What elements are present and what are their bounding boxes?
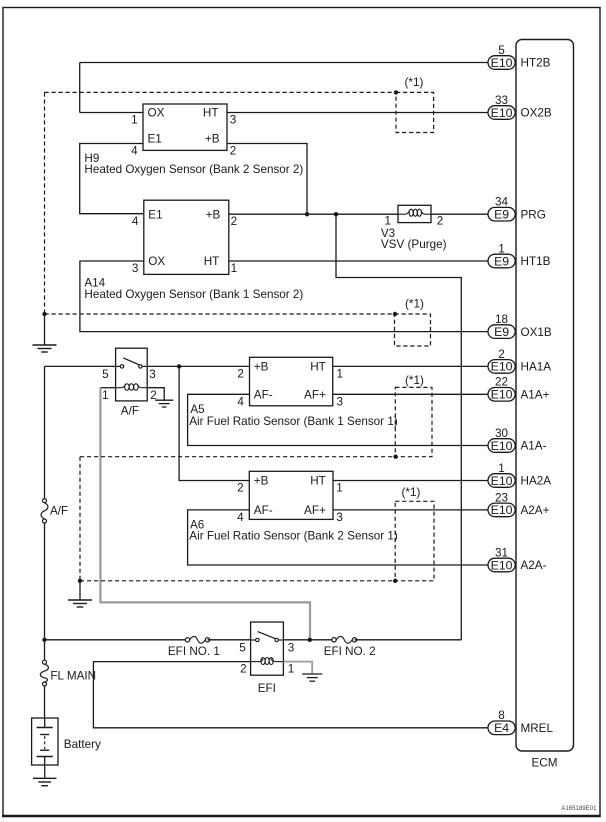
svg-text:EFI NO. 1: EFI NO. 1 (168, 645, 220, 658)
svg-text:HA2A: HA2A (521, 475, 552, 488)
svg-text:FL MAIN: FL MAIN (50, 669, 96, 682)
svg-text:E1: E1 (148, 133, 162, 146)
shield dashed box A1A (*1) (395, 387, 432, 456)
shield ground upper (44, 314, 46, 345)
svg-text:A2A+: A2A+ (521, 504, 550, 517)
wire A6 +B feed (179, 366, 249, 480)
svg-text:1: 1 (102, 389, 109, 402)
junction dot +B x307 (305, 212, 309, 216)
svg-text:E10: E10 (491, 106, 513, 120)
svg-text:E9: E9 (494, 254, 509, 268)
svg-text:Heated Oxygen Sensor (Bank 2 S: Heated Oxygen Sensor (Bank 2 Sensor 2) (84, 163, 303, 176)
svg-text:3: 3 (132, 262, 139, 275)
svg-text:1: 1 (498, 242, 505, 255)
svg-text:5: 5 (239, 641, 246, 654)
svg-text:A2A-: A2A- (521, 559, 547, 572)
svg-text:4: 4 (237, 396, 244, 409)
svg-text:4: 4 (237, 511, 244, 524)
heated oxygen sensor A14 box (144, 200, 229, 274)
svg-text:23: 23 (495, 491, 508, 504)
svg-text:HT2B: HT2B (521, 57, 551, 70)
svg-text:Air Fuel Ratio Sensor (Bank 2: Air Fuel Ratio Sensor (Bank 2 Sensor 1) (189, 529, 398, 542)
wire A5 AF- pin 4 to A1A- (188, 394, 488, 445)
junction dot shield left (42, 312, 46, 316)
fuse EFI NO. 2 (332, 638, 336, 642)
svg-text:5: 5 (102, 368, 109, 381)
svg-text:+B: +B (254, 475, 269, 488)
shield dashed box OX2B (*1) (396, 92, 434, 132)
wire fuse EFI NO.2 to riser (355, 639, 462, 641)
shield dashed line y581 (80, 580, 395, 582)
fusible link FL MAIN (43, 660, 47, 664)
svg-text:1: 1 (336, 482, 343, 495)
svg-text:AF+: AF+ (304, 389, 326, 402)
shield dashed vertical x44 (44, 92, 46, 314)
svg-text:MREL: MREL (521, 722, 554, 735)
svg-text:8: 8 (498, 709, 505, 722)
svg-text:OX1B: OX1B (521, 326, 552, 339)
A/F relay coil (125, 384, 130, 390)
air fuel ratio sensor A5 box (250, 357, 333, 406)
ground EFI relay (302, 673, 322, 675)
svg-text:(*1): (*1) (405, 76, 424, 89)
junction dot A/F output (177, 364, 181, 368)
wire A/F relay pin 3 to A5 +B (147, 365, 249, 367)
svg-text:2: 2 (237, 368, 244, 381)
wire VSV pin 2 to PRG (431, 213, 488, 215)
wire battery to ground (44, 765, 46, 778)
svg-text:ECM: ECM (532, 757, 558, 770)
wire battery feed to A/F relay pin 5 (45, 365, 116, 367)
wire vertical x79.7 (H9 OX to HT2B) (79, 63, 81, 113)
junction dot battery feed (42, 638, 46, 642)
svg-text:HT: HT (310, 475, 326, 488)
svg-text:AF+: AF+ (304, 504, 326, 517)
ECM pin 34 connector E9 (PRG) (488, 207, 515, 221)
wire A14 OX pin 3 to OX1B (80, 261, 488, 332)
svg-text:1: 1 (384, 215, 391, 228)
svg-text:HT1B: HT1B (521, 255, 551, 268)
svg-text:4: 4 (132, 215, 139, 228)
ECM pin 30 connector E10 (A1A-) (488, 439, 515, 453)
svg-text:2: 2 (240, 663, 247, 676)
svg-text:AF-: AF- (254, 389, 273, 402)
svg-text:+B: +B (206, 208, 221, 221)
svg-text:3: 3 (337, 396, 344, 409)
wire H9 E1 pin 4 (80, 144, 144, 214)
svg-text:4: 4 (131, 144, 138, 157)
ECM pin 1 connector E9 (HT1B) (488, 254, 515, 268)
ECM pin 31 connector E10 (A2A-) (488, 558, 515, 572)
svg-text:E10: E10 (491, 360, 513, 374)
svg-text:Battery: Battery (64, 738, 101, 751)
svg-text:5: 5 (498, 44, 505, 57)
A/F relay switch (116, 365, 121, 367)
wire H9 HT pin 3 to OX2B (227, 112, 488, 114)
svg-text:18: 18 (495, 313, 508, 326)
wire H9 +B pin 2 (227, 144, 307, 214)
junction dot shield lower left (78, 579, 82, 583)
svg-text:Heated Oxygen Sensor (Bank 1 S: Heated Oxygen Sensor (Bank 1 Sensor 2) (84, 288, 303, 301)
junction dot shield OX1B (393, 312, 397, 316)
A/F relay box (116, 348, 148, 401)
svg-text:A/F: A/F (50, 505, 68, 518)
svg-text:AF-: AF- (254, 504, 273, 517)
svg-text:(*1): (*1) (405, 298, 424, 311)
shield dashed box A2A (*1) (395, 501, 434, 581)
svg-text:+B: +B (205, 133, 220, 146)
svg-text:30: 30 (495, 427, 509, 440)
ECM pin 8 connector E4 (MREL) (488, 721, 515, 735)
junction dot +B x336 (334, 212, 338, 216)
wire EFI NO.1 feed (45, 639, 188, 641)
svg-text:EFI NO. 2: EFI NO. 2 (324, 645, 376, 658)
shield dashed line y92 (45, 91, 397, 93)
VSV V3 coil (409, 209, 413, 216)
svg-text:E1: E1 (148, 208, 162, 221)
ECM block (516, 40, 574, 752)
battery box (32, 718, 58, 765)
svg-text:2: 2 (498, 348, 505, 361)
battery plates (44, 718, 46, 728)
svg-text:E9: E9 (494, 208, 509, 222)
A/F relay output gray wire (100, 388, 310, 639)
shield dashed line y456 (80, 456, 395, 458)
svg-text:2: 2 (437, 215, 444, 228)
wire EFI NO.2 supply riser (336, 214, 461, 640)
junction dot gray wire (308, 638, 312, 642)
svg-text:3: 3 (230, 113, 237, 126)
svg-text:E10: E10 (491, 503, 513, 517)
shield dashed vertical x80 (79, 457, 81, 581)
svg-text:A1A-: A1A- (521, 440, 547, 453)
svg-text:3: 3 (336, 511, 343, 524)
ground battery (33, 777, 57, 779)
svg-text:22: 22 (495, 376, 508, 389)
junction dot shield OX2B (394, 90, 398, 94)
EFI relay coil (261, 658, 265, 665)
wire EFI relay pin 3 (283, 639, 334, 641)
svg-text:OX: OX (148, 255, 165, 268)
wire HT2B (80, 62, 488, 64)
svg-text:2: 2 (237, 482, 244, 495)
svg-text:2: 2 (230, 144, 237, 157)
svg-text:E10: E10 (491, 439, 513, 453)
wire A/F relay pin 1 stub (100, 387, 115, 389)
svg-text:VSV (Purge): VSV (Purge) (381, 238, 447, 251)
svg-text:34: 34 (495, 196, 509, 209)
wire EFI relay pin 1 to ground (283, 662, 312, 674)
svg-text:OX2B: OX2B (521, 107, 552, 120)
svg-text:33: 33 (495, 94, 508, 107)
svg-text:31: 31 (495, 546, 508, 559)
svg-text:HT: HT (310, 361, 326, 374)
wire A/F relay pin 2 to ground (147, 388, 164, 401)
wire A6 HT pin 1 to HA2A (333, 480, 488, 482)
svg-text:3: 3 (149, 368, 156, 381)
ECM pin 18 connector E9 (OX1B) (488, 325, 515, 339)
svg-text:A1A+: A1A+ (521, 389, 550, 402)
svg-text:(*1): (*1) (402, 486, 421, 499)
EFI relay switch (251, 639, 256, 641)
ECM pin 33 connector E10 (OX2B) (488, 106, 515, 120)
wire A/F fuse to EFI NO.1 node (44, 523, 46, 663)
svg-text:1: 1 (131, 113, 138, 126)
ground A/F relay (155, 399, 173, 401)
svg-text:1: 1 (498, 462, 505, 475)
ECM pin 23 connector E10 (A2A+) (488, 503, 515, 517)
svg-text:E10: E10 (491, 56, 513, 70)
junction dot shield A1A (393, 455, 397, 459)
shield ground lower (79, 581, 81, 600)
VSV V3 box (398, 205, 431, 222)
heated oxygen sensor H9 box (143, 104, 227, 150)
svg-text:E10: E10 (491, 474, 513, 488)
wire A5 AF+ pin 3 to A1A+ (333, 393, 488, 395)
svg-text:(*1): (*1) (405, 374, 424, 387)
svg-text:HA1A: HA1A (521, 361, 552, 374)
fuse EFI NO. 1 (185, 638, 189, 642)
svg-text:1: 1 (337, 368, 344, 381)
svg-text:+B: +B (254, 361, 269, 374)
ECM pin 1 connector E10 (HA2A) (488, 474, 515, 488)
svg-text:A/F: A/F (121, 405, 139, 418)
svg-text:2: 2 (231, 215, 238, 228)
svg-text:OX: OX (148, 107, 165, 120)
wire EFI relay pin 2 to MREL (93, 662, 488, 728)
wire fuse to EFI relay pin 5 (208, 639, 251, 641)
svg-text:PRG: PRG (521, 208, 546, 221)
shield dashed box OX1B (*1) (395, 314, 431, 346)
junction dot shield A2A (393, 579, 397, 583)
wire A/F fuse feed (44, 366, 46, 500)
svg-text:1: 1 (231, 262, 238, 275)
svg-text:E10: E10 (491, 558, 513, 572)
wire A14 +B pin 2 to VSV (229, 213, 398, 215)
svg-text:EFI: EFI (258, 682, 276, 695)
svg-text:Air Fuel Ratio Sensor (Bank 1: Air Fuel Ratio Sensor (Bank 1 Sensor 1) (189, 415, 398, 428)
svg-text:A165189E01: A165189E01 (561, 805, 597, 812)
wire H9 OX pin 1 (80, 112, 143, 114)
ECM pin 5 connector E10 (HT2B) (488, 56, 515, 70)
svg-text:3: 3 (288, 641, 295, 654)
wire A14 HT pin 1 to HT1B (229, 260, 488, 262)
svg-text:E10: E10 (491, 388, 513, 402)
air fuel ratio sensor A6 box (249, 471, 333, 519)
shield dashed line y314 (45, 313, 396, 315)
wire A6 AF+ pin 3 to A2A+ (333, 509, 488, 511)
svg-text:E4: E4 (494, 721, 509, 735)
svg-text:1: 1 (288, 663, 295, 676)
fuse A/F (43, 499, 47, 503)
svg-text:HT: HT (203, 107, 219, 120)
svg-text:HT: HT (204, 255, 220, 268)
EFI relay box (251, 622, 284, 675)
ECM pin 22 connector E10 (A1A+) (488, 388, 515, 402)
wire A5 HT pin 1 to HA1A (333, 365, 488, 367)
wire FL MAIN to battery (44, 686, 46, 719)
svg-text:E9: E9 (494, 325, 509, 339)
ECM pin 2 connector E10 (HA1A) (488, 360, 515, 374)
wire A6 AF- pin 4 to A2A- (188, 510, 488, 565)
